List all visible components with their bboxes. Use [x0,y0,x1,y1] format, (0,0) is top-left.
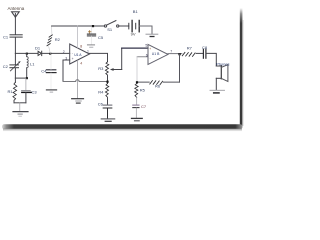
wire R4 to C6 [107,99,109,105]
power rail wire [52,25,105,27]
node dot output feedback [178,53,180,55]
svg-text:R4: R4 [98,89,104,94]
wire C3 top lead [25,78,27,90]
antenna [12,12,20,17]
pin8 wire [76,26,78,48]
wire to R1 [14,78,16,82]
wire hop over pin4 [76,80,80,82]
wire hop to R3 junction [79,81,107,83]
svg-text:4: 4 [80,61,82,65]
svg-text:3: 3 [65,56,67,60]
svg-text:C7: C7 [141,104,147,109]
wire tank bottom row [15,77,26,79]
plus mark C5 [88,31,91,34]
svg-text:U1 B: U1 B [152,52,160,56]
svg-text:Phones: Phones [216,61,229,66]
svg-text:-: - [150,56,151,60]
svg-text:L1: L1 [30,61,35,66]
wire pin6 stub [137,56,148,58]
wire U1A output [90,53,108,61]
svg-text:R1: R1 [8,89,14,94]
node dot pin3 bias [106,81,108,83]
wire C2 to tank bottom [14,68,16,78]
svg-text:C1: C1 [3,34,9,39]
wire switch to battery [119,25,129,27]
svg-text:R2: R2 [55,37,61,42]
wire U1B pin5 [122,47,148,49]
battery B1 [129,20,139,31]
wire antenna to C1 [14,17,16,34]
wire bottom joining row [14,102,26,104]
resistor R1 [13,82,17,100]
potentiometer R3 [105,62,108,75]
wire R5 to C7 [136,97,138,104]
wire C4 stems faint [50,54,52,90]
node dot detector [49,53,51,55]
svg-text:9V: 9V [131,31,136,36]
op-amp U1A [70,44,90,64]
svg-text:B1: B1 [133,9,139,14]
pin4 wire to ground [76,60,78,98]
wire L1 bottom lead [26,68,28,78]
wire ground stem left [19,103,21,111]
wire U1B output [168,53,182,55]
wire pot to R4 [107,75,109,84]
resistor R6 [150,81,163,85]
resistor R5 [135,83,139,97]
svg-text:-: - [72,51,73,55]
svg-text:U1 A: U1 A [74,53,82,57]
svg-text:R5: R5 [140,87,146,92]
resistor R4 [105,84,108,99]
node dot pin6 [136,81,138,83]
wire pin6 drop [136,57,138,82]
wire R1 to bottom [13,100,15,102]
wire R7 to C8 [196,52,203,54]
diode D1 [38,51,42,55]
svg-text:C4: C4 [41,68,47,73]
svg-text:2: 2 [63,50,65,54]
wire pin3 drop [62,60,64,82]
wire pin3 run [63,81,76,83]
wire C5 top stem [91,27,93,34]
ground C6 [101,119,115,121]
svg-text:6: 6 [146,53,148,57]
svg-text:+: + [149,47,151,51]
resistor R2 [47,26,52,53]
capacitor C1 [10,35,22,37]
svg-text:Antenna: Antenna [8,6,25,11]
op-amp U1B [148,44,168,64]
wire phones to ground [215,78,217,90]
svg-text:C3: C3 [32,90,38,95]
ground C7 [132,118,143,120]
shadow bottom edge [2,124,243,129]
phones jack [216,65,228,82]
wire wiper to U1B pin5 [121,48,123,69]
wire diode to op-amp pin2 [42,52,70,54]
wire node to C2 [14,53,16,64]
svg-text:D1: D1 [35,45,41,50]
wire C7 to ground [135,108,137,118]
svg-text:1: 1 [87,49,89,53]
variable capacitor C2 [10,61,21,71]
svg-text:C5: C5 [98,35,104,40]
svg-text:C8: C8 [202,45,208,50]
wire C3 to bottom [25,93,27,103]
resistor R7 [182,52,195,56]
svg-text:S1: S1 [107,27,113,32]
capacitor C5 [87,34,95,36]
svg-text:R7: R7 [187,46,193,51]
ground C4 [46,90,56,92]
wire C8 to phones [206,53,216,66]
wire pin3 stub [63,59,70,61]
svg-text:5: 5 [145,44,147,48]
capacitor C7 [133,105,139,108]
ground battery [146,34,158,36]
switch S1 [104,21,119,28]
svg-text:7: 7 [170,50,172,54]
svg-text:C2: C2 [3,64,9,69]
ground C5 [87,45,94,47]
inductor L1 [27,57,29,68]
svg-text:R6: R6 [155,84,161,89]
ground U1A pin4 [72,99,84,103]
wire C1 to node row [14,37,16,53]
capacitor C3 [22,91,32,93]
wire node row to diode [15,52,38,54]
wire feedback left run [137,81,180,83]
node dot tank bottom [26,77,28,79]
ground phones [210,90,225,93]
wire battery to ground [139,26,152,34]
node dot tank top [26,53,28,55]
capacitor C4 [46,70,56,73]
svg-text:C6: C6 [98,102,104,107]
svg-text:+: + [72,57,74,61]
wire C6 to ground [107,108,109,118]
wire C5 bottom stem [91,36,93,45]
wire L1 top lead [26,54,28,57]
ground tank [13,112,28,117]
capacitor C8 [203,49,206,58]
svg-text:R3: R3 [98,66,104,71]
capacitor C6 [103,105,112,108]
shadow bottom fade [3,129,242,132]
node dot C5 tap [92,25,94,27]
shadow right edge [240,8,243,126]
svg-text:8: 8 [80,45,82,49]
pot wiper arrow [110,68,122,71]
wire feedback drop [179,54,181,82]
